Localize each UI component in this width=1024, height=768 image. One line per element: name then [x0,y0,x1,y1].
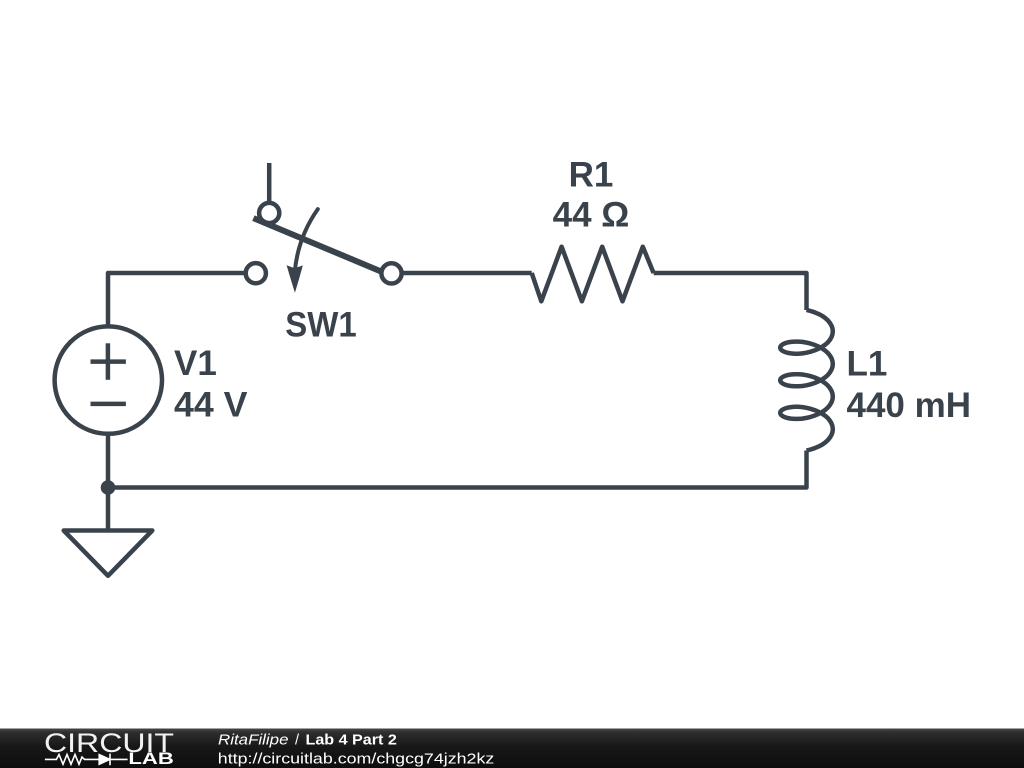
wire [403,271,531,276]
svg-text:SW1: SW1 [285,306,357,345]
wire [106,434,111,488]
node junction [101,480,116,495]
wire [106,488,111,531]
svg-text:44 V: 44 V [174,386,248,425]
wire [108,273,244,328]
switch SW1 arrowhead [287,265,303,293]
switch SW1 terminal right [381,263,401,283]
wire [267,163,272,202]
wire [654,273,807,310]
svg-text:http://circuitlab.com/chgcg74j: http://circuitlab.com/chgcg74jzh2kz [218,751,495,768]
voltage source V1 [55,326,162,433]
footer bar [0,729,1024,768]
resistor R1 [532,247,654,302]
svg-text:L1: L1 [847,344,888,383]
svg-text:LAB: LAB [128,749,173,768]
svg-text:RitaFilipe: RitaFilipe [218,733,289,749]
switch SW1 terminal left [246,263,266,283]
svg-text:Lab 4 Part 2: Lab 4 Part 2 [306,733,397,749]
wire [108,451,807,488]
svg-text:44 Ω: 44 Ω [553,196,630,235]
svg-text:440 mH: 440 mH [847,386,972,425]
svg-text:V1: V1 [174,344,217,383]
svg-text:R1: R1 [569,156,614,195]
switch SW1 arc [295,209,318,273]
inductor L1 [780,310,833,451]
switch SW1 terminal top [259,203,279,223]
logo schematic glyph [45,754,128,766]
switch SW1 blade [253,218,383,272]
ground [64,531,153,576]
